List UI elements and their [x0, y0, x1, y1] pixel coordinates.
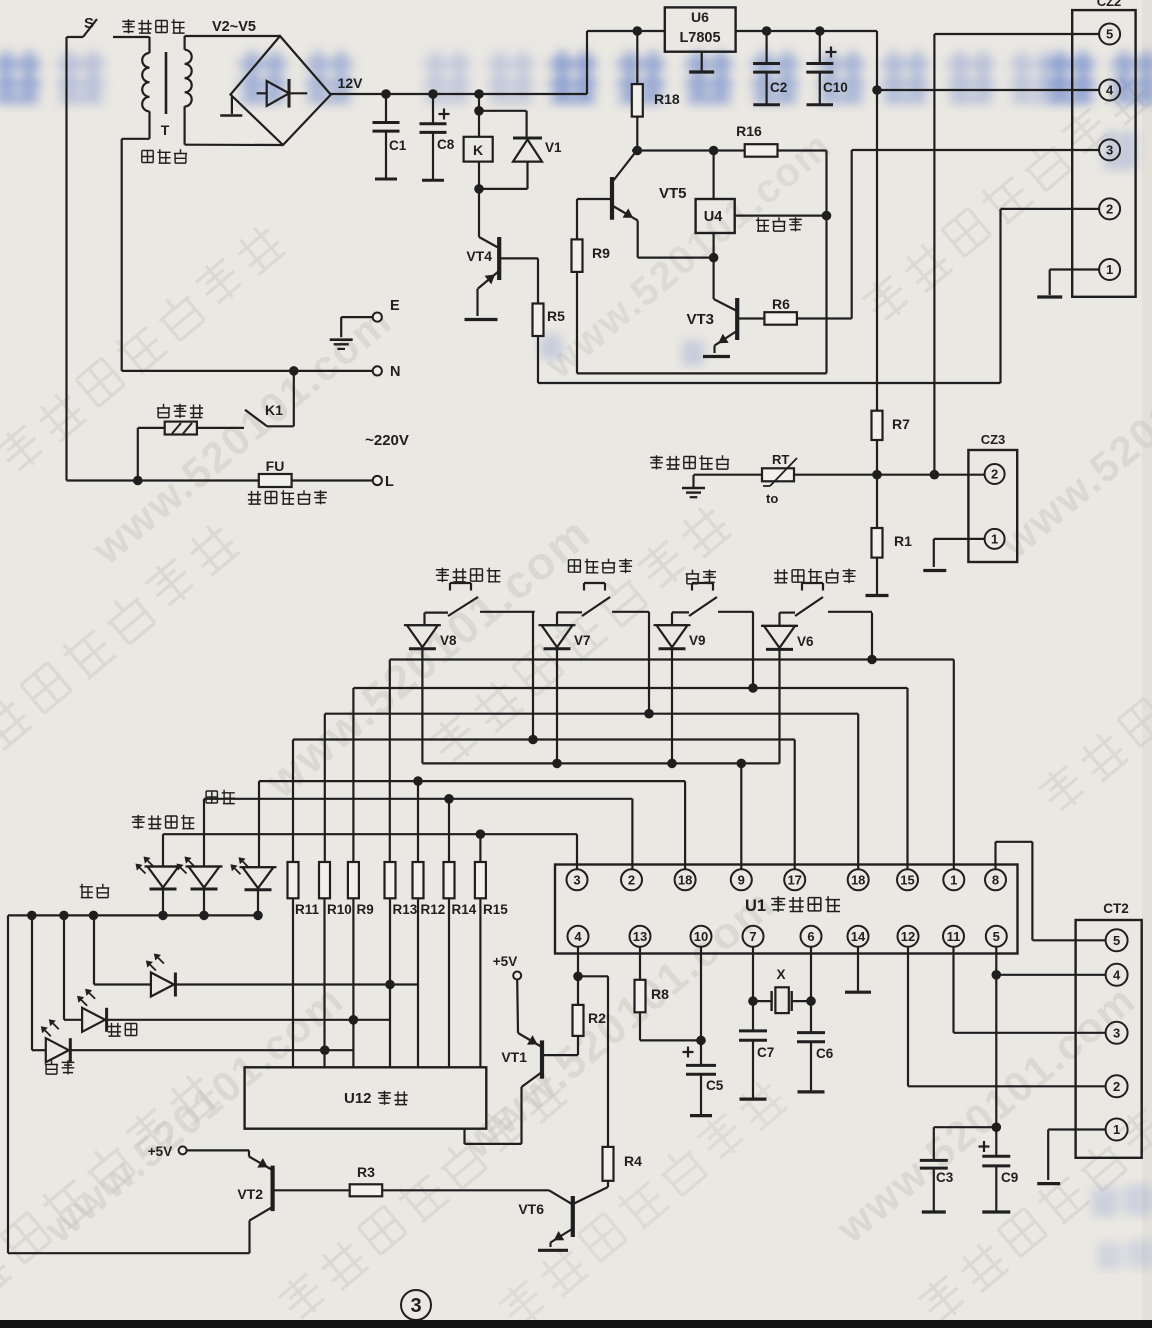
svg-text:C7: C7	[757, 1045, 774, 1060]
svg-text:15: 15	[900, 873, 914, 888]
CT2 pin1 ground	[1037, 1130, 1105, 1184]
svg-text:R9: R9	[592, 245, 610, 261]
wire VT5 collector rail	[632, 149, 745, 151]
wire bridge bottom	[185, 144, 283, 147]
node 12V-K	[474, 89, 484, 99]
svg-text:5: 5	[993, 929, 1000, 944]
capacitor C1	[373, 94, 407, 179]
capacitor C10	[806, 31, 847, 105]
svg-text:18: 18	[678, 873, 692, 888]
label fengmingqi	[756, 217, 802, 231]
node pin4-R2	[573, 972, 583, 982]
label kuaisu	[206, 790, 235, 804]
svg-text:VT1: VT1	[501, 1049, 527, 1065]
bus A to U1 pin1	[390, 655, 954, 870]
thermistor RT	[694, 452, 798, 506]
svg-text:1: 1	[1113, 1122, 1120, 1137]
transistor VT5	[612, 152, 714, 258]
node L	[373, 474, 394, 490]
bus C to U1 pin18b	[325, 709, 858, 869]
label wendurongduanqi	[248, 490, 327, 504]
resistor R16	[736, 123, 826, 373]
U1 bottom pin 13	[630, 926, 651, 947]
relay coil K	[464, 94, 493, 189]
resistor R11	[288, 862, 299, 1067]
svg-text:C9: C9	[1001, 1170, 1018, 1185]
wire CZ2-4	[872, 85, 1098, 95]
svg-text:C1: C1	[389, 138, 407, 153]
svg-text:RT: RT	[772, 452, 789, 467]
transistor VT4	[465, 189, 500, 320]
node 5V-R18	[633, 26, 643, 36]
wire L line	[67, 479, 373, 481]
svg-text:VT3: VT3	[686, 311, 714, 328]
resistor R5	[500, 258, 565, 383]
svg-text:R7: R7	[892, 416, 910, 432]
svg-text:FU: FU	[266, 458, 285, 474]
svg-text:R8: R8	[651, 986, 669, 1002]
svg-text:11: 11	[947, 929, 961, 944]
button kaishi/tingzhi label	[774, 569, 856, 584]
wire U12 to VT1	[465, 1087, 522, 1144]
svg-text:N: N	[390, 364, 400, 380]
node pin5-C9	[992, 1122, 1002, 1132]
resistor R8	[635, 947, 702, 1040]
microprocessor U1 box	[555, 865, 1018, 954]
resistor R3	[275, 1164, 550, 1196]
capacitor C8	[420, 94, 455, 180]
pushbutton S-time	[425, 583, 535, 624]
display U12	[245, 1067, 487, 1128]
U1 bottom pin 4	[568, 926, 589, 947]
label gongnengxianshi	[132, 815, 194, 829]
node 5V-C10	[815, 26, 825, 36]
svg-text:8: 8	[992, 873, 999, 888]
U1 top pin 17	[784, 869, 805, 890]
U1 top pin 18	[848, 869, 869, 890]
wire pin4 junction to R4	[578, 947, 608, 1147]
wire pin11 to CT2 pin3	[954, 947, 1106, 1033]
resistor R12	[413, 862, 424, 1067]
CZ2 pin1 ground	[1037, 270, 1098, 298]
svg-text:V2~V5: V2~V5	[212, 19, 256, 35]
CT2 pin 1	[1106, 1119, 1128, 1141]
ground at E	[330, 317, 353, 349]
wire 5V rail	[736, 31, 877, 411]
svg-text:R5: R5	[547, 308, 565, 324]
LED indicator 4	[94, 915, 418, 996]
svg-text:2: 2	[991, 467, 998, 482]
svg-text:R13: R13	[393, 902, 418, 917]
svg-text:4: 4	[574, 929, 582, 944]
U1 pin8 to CT2 pin5	[996, 842, 1106, 941]
svg-text:R12: R12	[421, 902, 446, 917]
node RT-R7	[872, 470, 882, 480]
node N	[122, 364, 401, 380]
U1 top pin 3	[567, 869, 588, 890]
svg-text:R3: R3	[357, 1164, 375, 1180]
node 12V-C8	[428, 89, 438, 99]
U1 top pin 1	[943, 869, 964, 890]
resistor R4	[603, 1147, 643, 1187]
LED kuaisu-3	[231, 857, 277, 915]
svg-text:17: 17	[787, 873, 801, 888]
svg-text:VT6: VT6	[518, 1201, 544, 1217]
LED kuaisu-1	[136, 857, 182, 916]
node K-VT4	[474, 184, 484, 194]
transistor VT6	[518, 1187, 608, 1250]
U1 top pin 8	[985, 869, 1006, 890]
U1 bottom pin 10	[691, 926, 712, 947]
wire V7 right drop	[648, 612, 650, 714]
resistor row labels	[295, 902, 508, 917]
U1 bottom pin 12	[898, 926, 919, 947]
resistor R18	[632, 31, 680, 151]
CT2 pin 5	[1106, 929, 1128, 951]
svg-text:10: 10	[694, 929, 708, 944]
svg-text:C2: C2	[770, 80, 787, 95]
button mianbancaozuo label	[569, 559, 633, 574]
svg-text:1: 1	[1106, 262, 1113, 277]
LED kuaisu-2	[177, 857, 223, 916]
diode V9	[654, 625, 706, 649]
wire RT to CZ3	[794, 474, 985, 476]
capacitor C6	[797, 947, 834, 1092]
node RT-CZ2pin5	[930, 470, 940, 480]
U1 bottom pin 7	[743, 926, 764, 947]
terminal +5V b	[148, 1144, 187, 1159]
svg-text:U12: U12	[344, 1090, 372, 1107]
wire R5 to CZ2 pin2	[538, 209, 1099, 383]
svg-text:C3: C3	[936, 1170, 954, 1185]
svg-text:C8: C8	[437, 137, 455, 152]
svg-text:2: 2	[1106, 202, 1113, 217]
bus G to U1 pin3	[163, 829, 577, 869]
svg-text:X: X	[776, 967, 785, 982]
CZ2 pin 2	[1099, 198, 1120, 219]
svg-text:U6: U6	[691, 9, 709, 25]
svg-text:4: 4	[1113, 968, 1121, 983]
CT2 pin 3	[1106, 1022, 1128, 1044]
CZ3 pin 2	[985, 464, 1005, 484]
label guodi kaiguan	[122, 19, 184, 33]
svg-text:L: L	[385, 474, 394, 490]
svg-text:to: to	[766, 491, 778, 506]
wire V8 right drop	[532, 612, 534, 740]
svg-text:4: 4	[1106, 83, 1114, 98]
svg-text:T: T	[161, 122, 170, 138]
U1 bottom pin 5	[986, 926, 1007, 947]
wire 12V rail	[331, 31, 665, 94]
label T	[161, 122, 170, 138]
svg-text:L7805: L7805	[679, 30, 720, 46]
node rail-R18	[633, 146, 643, 156]
connector CZ3 box	[968, 432, 1017, 562]
U1 top pin 18	[675, 869, 696, 890]
node 5V-C2	[762, 26, 772, 36]
svg-text:5: 5	[1106, 27, 1113, 42]
diode cathode bus to U1 pin9	[422, 649, 779, 870]
LED jishi	[32, 915, 353, 1074]
wire buzzer bottom	[577, 372, 827, 374]
diode V8	[404, 625, 457, 649]
bridge rectifier V2-V5	[220, 36, 331, 145]
U1 bottom pin 14	[848, 926, 869, 947]
svg-text:CZ2: CZ2	[1097, 0, 1122, 9]
wire pin12 to CT2 pin2	[908, 947, 1105, 1086]
node R8-C5	[696, 1036, 706, 1046]
resistor R9	[348, 862, 359, 1067]
label V2~V5	[212, 19, 256, 35]
svg-text:R1: R1	[894, 533, 912, 549]
resistor R7	[872, 411, 911, 475]
svg-text:2: 2	[1113, 1079, 1120, 1094]
wire primary to N rail	[122, 139, 150, 371]
bus F to U1 pin2	[204, 794, 632, 869]
CZ2 pin 5	[1099, 24, 1120, 45]
svg-text:C5: C5	[706, 1078, 724, 1093]
svg-text:14: 14	[851, 929, 866, 944]
regulator U6 L7805	[665, 7, 736, 51]
svg-text:V7: V7	[574, 633, 591, 648]
ground RT	[682, 475, 705, 497]
svg-text:9: 9	[738, 873, 745, 888]
svg-text:~220V: ~220V	[365, 432, 409, 449]
bus D to U1 pin17	[293, 735, 795, 870]
switch S	[67, 15, 150, 37]
svg-text:E: E	[390, 298, 400, 314]
svg-text:3: 3	[1106, 143, 1113, 158]
node E	[341, 298, 400, 322]
LED cathode bus	[8, 911, 263, 921]
label baowen	[80, 884, 110, 898]
resistor R13	[385, 862, 396, 1067]
svg-text:R14: R14	[452, 902, 477, 917]
wire CT2 pin4	[996, 974, 1105, 976]
node pin5-CT2pin4	[992, 970, 1002, 980]
svg-text:7: 7	[749, 929, 756, 944]
diode V6	[761, 626, 814, 650]
svg-text:K: K	[473, 142, 483, 158]
pushbutton S-panel	[557, 583, 649, 625]
CZ2 pin 3	[1099, 139, 1120, 160]
U1 top pin 9	[731, 869, 752, 890]
svg-text:R4: R4	[624, 1153, 642, 1169]
svg-text:R11: R11	[295, 902, 320, 917]
left rail	[8, 915, 250, 1253]
capacitor C2	[753, 31, 787, 105]
transistor VT2	[187, 1150, 273, 1253]
button gongneng label	[686, 570, 716, 585]
crystal X	[748, 947, 816, 1013]
svg-text:U4: U4	[704, 209, 723, 225]
svg-text:18: 18	[851, 873, 865, 888]
svg-text:R9: R9	[357, 902, 374, 917]
svg-text:C10: C10	[823, 80, 848, 95]
U1 bottom pin 6	[801, 926, 822, 947]
svg-text:3: 3	[573, 873, 580, 888]
page number 3	[401, 1290, 431, 1320]
node rail-U4	[709, 146, 719, 156]
node U4-right	[822, 211, 832, 221]
wire V6 right drop	[871, 613, 873, 660]
node N-K1	[289, 366, 299, 376]
CZ2 pin 1	[1099, 259, 1120, 280]
capacitor C7	[739, 1001, 774, 1099]
label ~220V	[365, 432, 409, 449]
svg-text:R18: R18	[654, 91, 680, 107]
CZ2 pin 4	[1099, 80, 1120, 101]
svg-text:K1: K1	[265, 402, 283, 418]
bus B to U1 pin15	[353, 683, 907, 869]
svg-text:VT5: VT5	[659, 185, 687, 202]
svg-text:CZ3: CZ3	[981, 432, 1006, 447]
fuse FU	[259, 458, 292, 487]
heater jiareqi	[138, 404, 244, 481]
label wendu chuanganqi	[650, 455, 729, 469]
svg-text:+5V: +5V	[493, 954, 517, 969]
U1 bottom pin 11	[943, 926, 964, 947]
U1 top pin 15	[897, 869, 918, 890]
svg-text:12V: 12V	[338, 75, 364, 91]
capacitor C3	[920, 1127, 997, 1212]
svg-text:3: 3	[410, 1295, 421, 1317]
wire pin5 col	[995, 947, 997, 1156]
CZ3 pin 1	[985, 529, 1005, 549]
svg-text:13: 13	[633, 929, 647, 944]
resistor R10	[319, 862, 330, 1067]
transistor VT3	[686, 258, 737, 357]
node heater-L	[133, 476, 143, 486]
wire CZ2-5	[934, 34, 1098, 475]
svg-text:3: 3	[1113, 1026, 1120, 1041]
label 12V	[338, 75, 364, 91]
svg-text:V1: V1	[545, 140, 562, 155]
CT2 pin 2	[1106, 1075, 1128, 1097]
relay contact K1	[245, 371, 294, 426]
terminal +5V a	[493, 954, 521, 980]
svg-text:R6: R6	[772, 296, 790, 312]
svg-text:R2: R2	[588, 1010, 606, 1026]
resistor R1	[866, 475, 913, 596]
svg-text:VT2: VT2	[237, 1186, 263, 1202]
resistor R6	[739, 150, 1099, 325]
svg-text:+5V: +5V	[148, 1144, 172, 1159]
diode V7	[539, 625, 591, 649]
node 12V-C1	[381, 89, 391, 99]
CT2 pin 4	[1106, 964, 1128, 986]
button shijianshding label	[436, 568, 501, 583]
capacitor C5	[683, 947, 724, 1116]
connector CT2 box	[1076, 901, 1142, 1158]
transformer core	[165, 52, 168, 114]
svg-text:2: 2	[628, 873, 635, 888]
svg-text:6: 6	[807, 929, 814, 944]
svg-text:S: S	[84, 15, 94, 32]
U1 pin14 ground	[845, 947, 871, 992]
CZ3 pin1 ground	[923, 539, 984, 571]
U1 top pin 2	[621, 869, 642, 890]
diode V1	[479, 111, 562, 189]
svg-text:V6: V6	[797, 634, 814, 649]
svg-text:C6: C6	[816, 1046, 834, 1061]
U6 ground	[689, 52, 714, 72]
connector CZ2 box	[1072, 0, 1135, 297]
pushbutton S-func	[672, 583, 753, 625]
wire left rail	[65, 37, 67, 481]
resistor R14	[444, 862, 455, 1067]
svg-text:12: 12	[901, 929, 915, 944]
capacitor C9	[979, 1141, 1019, 1212]
label bianyaqi	[142, 149, 187, 163]
svg-text:5: 5	[1113, 933, 1120, 948]
bus E to U1 pin18a	[259, 776, 685, 869]
resistor R2	[543, 976, 606, 1055]
pushbutton S-start	[780, 583, 873, 625]
buzzer U4	[696, 151, 827, 258]
svg-text:U1: U1	[745, 897, 766, 915]
wire V9 right drop	[752, 612, 754, 688]
svg-text:R10: R10	[327, 902, 352, 917]
transformer T secondary	[185, 36, 192, 145]
resistor R9 buzzer	[572, 199, 612, 373]
page edge bar	[0, 1320, 1152, 1328]
svg-text:R15: R15	[483, 902, 508, 917]
resistor R15	[475, 862, 486, 1067]
svg-text:1: 1	[950, 873, 957, 888]
wire to bridge top	[185, 35, 280, 37]
svg-text:VT4: VT4	[466, 248, 492, 264]
svg-text:CT2: CT2	[1103, 901, 1129, 916]
node U4-VT3	[709, 253, 719, 263]
svg-text:V8: V8	[440, 633, 457, 648]
svg-text:1: 1	[991, 532, 998, 547]
LED shaozhu	[64, 915, 390, 1036]
label U1 weichuliqi	[745, 896, 840, 915]
svg-text:V9: V9	[689, 633, 706, 648]
transformer T primary	[142, 37, 149, 139]
transistor VT1	[501, 980, 542, 1088]
svg-text:R16: R16	[736, 123, 762, 139]
